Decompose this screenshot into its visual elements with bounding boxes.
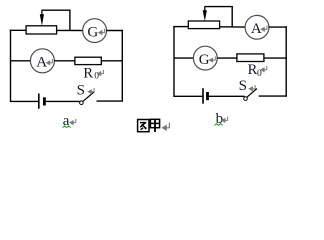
return mark after b [222, 117, 228, 123]
wire R0 to right rail (b) [264, 57, 287, 59]
battery short thick plate (a) [43, 97, 46, 105]
wire battery to switch (a) [46, 100, 80, 102]
rheostat wiper arrow (b) [204, 6, 206, 11]
wire left rail to G (b) [174, 57, 194, 59]
return mark after caption [163, 123, 170, 130]
return mark in A (b) [261, 26, 267, 32]
battery long plate (a) [38, 94, 40, 109]
svg-text:A: A [251, 21, 262, 37]
return mark after a [70, 119, 76, 125]
resistor R0 body (a) [75, 57, 101, 64]
switch pivot (b) [244, 97, 248, 101]
rheostat R body (b) [188, 21, 219, 29]
wire A to right rail (b) [269, 26, 287, 28]
wire G to R0 (b) [217, 57, 238, 59]
CJK glyph tu (图) [138, 120, 149, 132]
svg-text:G: G [199, 52, 210, 68]
wire wiper loop (a) [42, 10, 70, 30]
battery short thick plate (b) [206, 92, 209, 100]
return mark after R0 (a) [98, 70, 104, 76]
spellcheck squiggle under b [215, 124, 223, 126]
ammeter A (b) [245, 15, 269, 39]
wire left rail (a) [10, 30, 12, 102]
CJK glyph jia (甲) [150, 119, 159, 132]
wire left rail (b) [173, 26, 175, 96]
svg-text:S: S [77, 83, 85, 99]
bottom wire left of battery (a) [10, 100, 38, 102]
switch pivot (a) [80, 101, 84, 105]
return mark in G (b) [210, 56, 216, 62]
wire rheostat to A (b) [220, 26, 246, 28]
ammeter A (a) [30, 49, 54, 73]
bottom wire left of battery (b) [173, 95, 202, 97]
wire A to R0 (a) [54, 60, 76, 62]
svg-text:A: A [36, 55, 47, 71]
battery long plate (b) [202, 88, 204, 104]
wire right rail (a) [121, 30, 123, 102]
resistor R0 body (b) [237, 54, 264, 62]
wire top-left to rheostat (b) [173, 26, 189, 28]
wire right rail (b) [285, 26, 287, 96]
svg-text:R: R [83, 66, 93, 82]
galvanometer G (b) [193, 46, 217, 70]
rheostat wiper arrow (a) [41, 10, 43, 16]
spellcheck squiggle under a [63, 126, 71, 128]
return mark in A (a) [47, 59, 53, 65]
rheostat R body (a) [26, 26, 56, 34]
svg-text:G: G [87, 24, 98, 40]
wire battery to switch (b) [209, 95, 245, 97]
return mark after S (a) [88, 88, 94, 94]
switch lever (a) [83, 92, 94, 101]
wire wiper loop (b) [205, 7, 232, 27]
wire R0 to right rail (a) [101, 60, 123, 62]
wire switch to right rail (b) [259, 95, 287, 97]
wire top-left to rheostat (a) [10, 29, 27, 31]
wire G to right rail (a) [106, 30, 123, 32]
galvanometer G (a) [83, 19, 107, 43]
svg-text:S: S [239, 78, 247, 94]
wire left rail to A (a) [11, 60, 32, 62]
return mark after R0 (b) [261, 66, 267, 72]
wire rheostat to G (a) [57, 29, 84, 31]
return mark in G (a) [99, 29, 105, 35]
wire switch to right rail (a) [97, 100, 123, 102]
return mark after S (b) [249, 85, 255, 91]
switch lever (b) [247, 89, 257, 98]
